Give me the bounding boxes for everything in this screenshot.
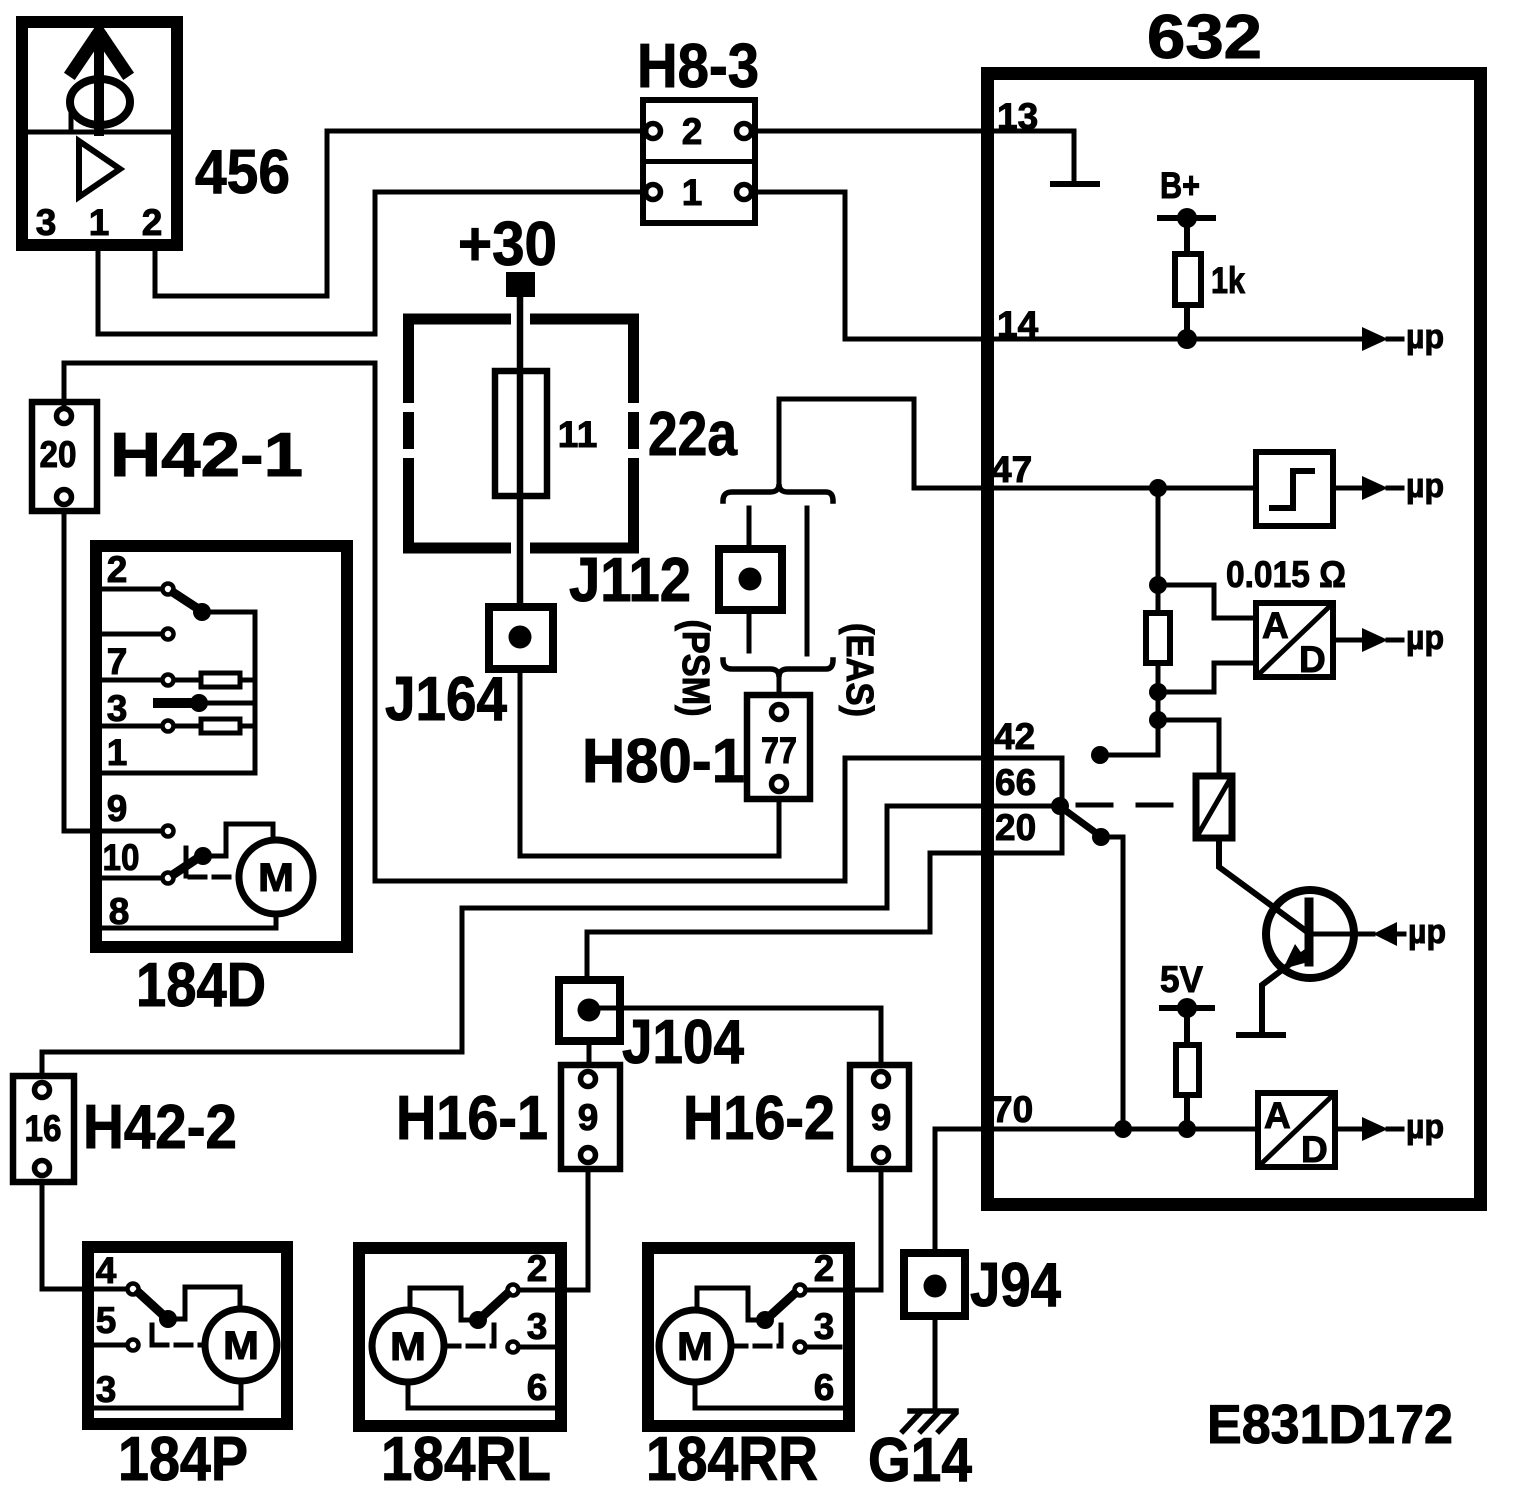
svg-text:42: 42 <box>994 716 1035 757</box>
switch upper contact dot <box>1091 746 1109 764</box>
resistor 1k <box>1175 254 1201 305</box>
emitter arrowhead <box>1283 944 1308 969</box>
B+ supply bar <box>1160 215 1213 221</box>
svg-text:2: 2 <box>527 1248 548 1289</box>
switch wiper arm <box>1062 808 1103 838</box>
ground bar at pin 13 (inside 632) <box>1053 181 1097 187</box>
svg-text:1: 1 <box>682 172 703 213</box>
pin 7 row wire with resistor element <box>102 678 255 683</box>
pin 3 contact of 184RR <box>795 1342 806 1353</box>
bottom brace (fan-in) <box>723 660 833 677</box>
svg-text:14: 14 <box>997 304 1039 345</box>
PSM branch wire <box>747 508 752 651</box>
motor unit 184P box <box>88 1247 287 1424</box>
5V supply bar <box>1162 1005 1212 1011</box>
junction J94 <box>904 1253 965 1316</box>
connector H16-2 <box>850 1065 909 1169</box>
svg-text:J112: J112 <box>569 546 691 615</box>
pin 66 wire to switch common <box>993 804 1052 809</box>
wire H8-3 pin2 to 632 pin13 with internal ground <box>752 131 1074 184</box>
wire H42-2 bottom to 184P pin4 <box>42 1182 126 1289</box>
svg-text:H16-2: H16-2 <box>683 1084 835 1153</box>
svg-text:3: 3 <box>96 1369 117 1410</box>
switch arm (lower) of 184D <box>174 858 198 874</box>
svg-text:6: 6 <box>527 1367 548 1408</box>
microprocessor arrow into base (points left) <box>1373 922 1397 946</box>
switch arm of 184RL <box>484 1294 507 1315</box>
wire pivot to motor of 184RL <box>410 1288 478 1320</box>
junction dot pin70/pull-up <box>1178 1120 1196 1138</box>
wire pivot to motor of 184RR <box>697 1288 765 1320</box>
pin 6 row wire of 184RR (motor return) <box>695 1382 842 1408</box>
svg-text:9: 9 <box>871 1097 892 1138</box>
EAS branch wire <box>805 508 810 654</box>
wire J164 down to junction with H80-1 return <box>518 669 523 856</box>
microprocessor arrow pin14 row <box>1362 327 1388 351</box>
junction dot on pin14 row <box>1177 329 1197 349</box>
wire H42-1 bottom to 184D pin9 <box>64 511 160 831</box>
motor M of 184RL <box>372 1310 444 1382</box>
svg-text:3: 3 <box>36 202 57 243</box>
wire 456 pin1 to H8-3 pin1 <box>98 192 646 334</box>
svg-text:184RL: 184RL <box>381 1425 551 1494</box>
pin 3 row wire of 184RR <box>808 1345 840 1350</box>
pin-group box around 42/66/20 <box>993 758 1062 853</box>
middle contact <box>163 629 174 640</box>
svg-text:2: 2 <box>107 549 128 590</box>
svg-text:2: 2 <box>142 202 163 243</box>
pin 2 row wire <box>102 587 160 592</box>
arrow symbol inside 456 <box>73 34 125 131</box>
svg-text:H16-1: H16-1 <box>396 1084 548 1153</box>
mechanical link dashed <box>190 875 239 880</box>
switch lower contact dot <box>1092 828 1110 846</box>
triangle symbol inside 456 <box>79 141 120 197</box>
wire 632 pin70 to J94 and ground <box>935 1129 981 1253</box>
svg-text:184D: 184D <box>136 951 266 1020</box>
mechanical link hook <box>184 848 189 876</box>
svg-text:184RR: 184RR <box>646 1425 818 1494</box>
A/D converter block (position) <box>1258 1093 1335 1167</box>
svg-text:5V: 5V <box>1160 959 1203 1000</box>
mechanical link dashed of 184P <box>152 1343 205 1348</box>
svg-text:M: M <box>390 1325 426 1369</box>
wire 632 pin20 to J104 <box>587 853 1062 980</box>
svg-text:66: 66 <box>995 762 1036 803</box>
svg-text:D: D <box>1299 639 1326 680</box>
svg-text:M: M <box>677 1325 713 1369</box>
mechanical link dashed of 184RR <box>731 1344 781 1349</box>
svg-text:E831D172: E831D172 <box>1207 1393 1453 1455</box>
svg-text:1: 1 <box>577 414 598 455</box>
svg-text:5: 5 <box>96 1300 117 1341</box>
svg-text:A: A <box>1264 1095 1291 1136</box>
svg-text:77: 77 <box>761 730 797 771</box>
wire +30 through fuse 11 down to J164 <box>517 297 524 607</box>
schmitt symbol <box>1272 471 1312 508</box>
svg-text:47: 47 <box>991 449 1032 490</box>
potentiometer wiper bar (pin 3) <box>158 698 192 708</box>
top brace (fan-out) <box>723 484 833 501</box>
pin 5 row wire of 184P <box>94 1343 126 1348</box>
connector H42-1 <box>32 402 97 511</box>
junction dot below shunt <box>1149 683 1167 701</box>
svg-text:µp: µp <box>1408 913 1446 951</box>
svg-text:20: 20 <box>40 434 77 475</box>
svg-text:9: 9 <box>107 788 128 829</box>
motor M of 184P <box>205 1309 277 1381</box>
svg-text:6: 6 <box>814 1367 835 1408</box>
pin 5 contact of 184P <box>128 1340 139 1351</box>
pin 4 contact of 184P <box>128 1284 139 1295</box>
wire resistor to pin14 row <box>1184 305 1190 339</box>
pull-up resistor <box>1176 1045 1199 1095</box>
relay coil <box>1196 776 1232 838</box>
+30 supply terminal <box>506 272 535 297</box>
pin 7 contact <box>163 675 174 686</box>
ground G14 symbol <box>903 1411 956 1431</box>
junction dot above shunt <box>1149 576 1167 594</box>
switch arm pivot dot <box>193 603 211 621</box>
wire shunt bottom to A/D converter <box>1158 663 1256 692</box>
pin 2 contact <box>163 584 174 595</box>
transistor base line to microprocessor <box>1313 932 1373 937</box>
emitter ground bar <box>1239 1032 1283 1038</box>
junction J164 <box>489 607 553 669</box>
pin 70 row wire <box>993 1127 1258 1132</box>
svg-text:H80-1: H80-1 <box>582 727 745 796</box>
svg-text:3: 3 <box>107 688 128 729</box>
fuse holder box 22a (dashed border) <box>403 314 639 554</box>
svg-text:µp: µp <box>1406 467 1444 505</box>
svg-text:1: 1 <box>89 202 110 243</box>
wire H16-1 to 184RL pin2 <box>557 1169 588 1290</box>
transistor Q (driver) <box>1266 890 1354 978</box>
arm pivot dot of 184P <box>159 1310 177 1328</box>
junction J112 <box>719 549 782 610</box>
wire H42-1 pin20 to 632 pin42 <box>64 363 1062 881</box>
5V node dot <box>1177 998 1197 1018</box>
microprocessor arrow A/D position row <box>1335 1127 1363 1132</box>
wire branch stem down to top brace <box>777 399 782 484</box>
internal bus of 184D <box>102 612 255 773</box>
arm pivot dot of 184RL <box>469 1311 487 1329</box>
wire relay coil to transistor collector <box>1219 838 1306 931</box>
measurement chain vertical wire <box>1156 488 1161 755</box>
svg-text:13: 13 <box>997 96 1038 137</box>
wire pivot to motor of 184P <box>168 1287 240 1319</box>
wire J104 down to H16-1 <box>587 1041 592 1065</box>
wire shunt top to A/D converter <box>1158 585 1256 618</box>
svg-text:2: 2 <box>814 1248 835 1289</box>
wire 632 pin47 to branch point above braces <box>779 399 1256 488</box>
resistor element on pin1 row <box>201 719 240 733</box>
wire pivot to motor M of 184D <box>203 824 273 856</box>
svg-text:H42-1: H42-1 <box>110 421 303 490</box>
resistor element on pin7 row <box>201 673 240 687</box>
svg-text:22a: 22a <box>648 400 737 469</box>
relay linkage dashed <box>1078 803 1194 808</box>
wire H8-3 pin1 to 632 pin14 row (continues to microprocessor arrow) <box>752 192 1363 339</box>
svg-text:M: M <box>258 856 294 900</box>
pin 10 row wire <box>102 876 160 881</box>
connector H16-1 <box>561 1065 620 1169</box>
pin 9 contact <box>163 826 174 837</box>
motor unit 184RR box <box>648 1248 849 1426</box>
svg-text:J94: J94 <box>970 1251 1061 1320</box>
svg-text:632: 632 <box>1147 3 1262 72</box>
motor unit 184RL box <box>359 1248 561 1426</box>
wire 456 pin2 to H8-3 pin2 <box>155 131 646 296</box>
ECU box 632 <box>988 74 1481 1205</box>
wire H42-2 pin16 to 632 pin66 <box>42 806 1052 1076</box>
svg-text:B+: B+ <box>1160 165 1200 206</box>
svg-text:3: 3 <box>527 1306 548 1347</box>
wire pivot to internal bus <box>202 610 255 615</box>
svg-text:H42-2: H42-2 <box>83 1093 237 1162</box>
svg-text:3: 3 <box>814 1306 835 1347</box>
mechanical link hook of 184RL <box>492 1325 497 1343</box>
svg-text:µp: µp <box>1406 619 1444 657</box>
eye/ellipse symbol inside 456 <box>70 79 130 131</box>
switch arm of 184RR <box>771 1294 794 1315</box>
pin 1 contact <box>163 721 174 732</box>
arm pivot dot of 184RR <box>756 1311 774 1329</box>
pin 1 row wire with resistor element <box>102 724 255 729</box>
fuse 11 element <box>495 371 547 496</box>
switch arm (upper) of 184D <box>174 593 197 608</box>
junction dot relay branch <box>1149 711 1167 729</box>
pin 3 row wire of 184RL <box>521 1345 553 1350</box>
motor M of 184D <box>239 840 313 914</box>
pin 3 row wire of 184P (motor return) <box>94 1381 241 1408</box>
microprocessor arrow pin47 row <box>1333 486 1363 491</box>
svg-text:20: 20 <box>995 807 1036 848</box>
wire lower contact down to pin70 row <box>1101 837 1123 1129</box>
junction J104 <box>559 980 620 1041</box>
svg-text:184P: 184P <box>118 1425 248 1494</box>
switch common dot <box>1051 797 1069 815</box>
svg-text:7: 7 <box>107 641 128 682</box>
svg-text:A: A <box>1262 605 1289 646</box>
wire J94 to ground G14 <box>933 1316 938 1408</box>
svg-text:1k: 1k <box>1211 260 1245 301</box>
svg-text:16: 16 <box>25 1108 62 1149</box>
svg-text:H8-3: H8-3 <box>637 32 759 101</box>
svg-text:(PSM): (PSM) <box>674 620 716 717</box>
wire 5V to pull-up resistor <box>1184 1016 1190 1045</box>
shunt resistor 0.015 ohm <box>1146 613 1170 663</box>
wiper to bus <box>199 701 255 706</box>
pin 10 contact <box>163 873 174 884</box>
wire B+ to resistor 1k <box>1184 226 1190 254</box>
junction dot pin70/switch <box>1114 1120 1132 1138</box>
connector H8-3 <box>643 100 755 223</box>
mechanical link hook of 184RR <box>779 1325 784 1343</box>
connector H42-2 <box>13 1076 74 1182</box>
svg-text:J104: J104 <box>622 1008 744 1077</box>
svg-text:0.015 Ω: 0.015 Ω <box>1226 554 1346 595</box>
connector H80-1 <box>747 695 810 799</box>
svg-text:G14: G14 <box>868 1426 972 1495</box>
svg-text:(EAS): (EAS) <box>838 623 880 717</box>
wire to relay coil <box>1158 720 1219 776</box>
junction dot pin47 row <box>1149 479 1167 497</box>
svg-text:9: 9 <box>578 1097 599 1138</box>
svg-text:2: 2 <box>682 111 703 152</box>
pin 2 contact of 184RL <box>508 1285 519 1296</box>
svg-text:M: M <box>223 1324 259 1368</box>
svg-text:10: 10 <box>103 837 140 878</box>
motor unit 184D box <box>96 546 347 947</box>
pin 3 contact of 184RL <box>508 1342 519 1353</box>
motor M of 184RR <box>659 1310 731 1382</box>
switch arm of 184P <box>139 1293 162 1314</box>
pin 2 row wire of 184RL <box>521 1288 553 1293</box>
transistor emitter to ground <box>1262 952 1306 1032</box>
svg-text:µp: µp <box>1406 318 1444 356</box>
A/D converter block (current) <box>1256 603 1333 677</box>
microprocessor arrow A/D current row <box>1333 638 1363 643</box>
svg-text:J164: J164 <box>385 665 507 734</box>
mechanical link hook of 184P <box>150 1325 155 1343</box>
middle contact row (unlabelled) <box>102 632 160 637</box>
svg-text:1: 1 <box>558 414 579 455</box>
wire J104 to H16-2 <box>589 1008 881 1065</box>
pin 2 contact of 184RR <box>795 1285 806 1296</box>
pin 8 row wire to motor bottom <box>102 914 276 928</box>
svg-text:1: 1 <box>107 732 128 773</box>
svg-text:+30: +30 <box>458 210 557 279</box>
schmitt trigger block <box>1256 452 1333 526</box>
pin 2 row wire of 184RR <box>808 1288 840 1293</box>
svg-text:4: 4 <box>96 1250 117 1291</box>
B+ node dot <box>1177 208 1197 228</box>
wire brace notch to H80-1 <box>777 677 782 695</box>
wire resistor to pin70 row <box>1184 1095 1190 1129</box>
lower arm pivot dot <box>194 847 212 865</box>
wire upper contact to measurement chain <box>1100 753 1158 758</box>
svg-text:456: 456 <box>195 138 290 207</box>
component 456 (washer pump/sensor symbol box) <box>22 22 177 245</box>
mechanical link dashed of 184RL <box>444 1344 494 1349</box>
svg-text:70: 70 <box>992 1089 1033 1130</box>
wire H16-2 to 184RR pin2 <box>844 1169 881 1290</box>
pin 6 row wire of 184RL (motor return) <box>408 1382 555 1408</box>
wiper dot <box>190 694 208 712</box>
svg-text:D: D <box>1301 1129 1328 1170</box>
svg-text:µp: µp <box>1406 1108 1444 1146</box>
wire H80-1 bottom to J164 branch <box>520 799 779 856</box>
